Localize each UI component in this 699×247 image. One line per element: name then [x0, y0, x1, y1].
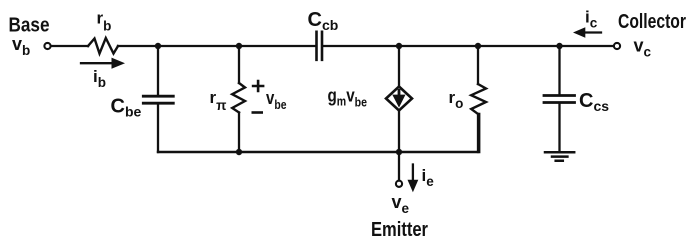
ground [545, 152, 574, 160]
wire base terminal to resistor r_b [52, 45, 89, 47]
svg-text:Ccb: Ccb [308, 9, 339, 33]
i_e arrowhead [408, 180, 419, 192]
svg-text:rπ: rπ [210, 88, 227, 113]
wire current source branch lower [398, 111, 400, 153]
svg-text:Emitter: Emitter [371, 219, 428, 241]
wire C_be branch lower [157, 104, 159, 153]
svg-text:Ccs: Ccs [579, 90, 609, 114]
capacitor C_cs plates [544, 96, 575, 103]
wire r_pi branch lower [238, 113, 240, 153]
svg-text:ro: ro [449, 88, 464, 111]
svg-text:ib: ib [93, 67, 106, 90]
wire emitter stub [398, 152, 400, 180]
wire r_o branch lower [477, 114, 479, 152]
wire bottom emitter rail [158, 114, 479, 152]
svg-text:vc: vc [634, 36, 652, 60]
wire C_cs branch lower [558, 103, 560, 152]
wire node B2 to capacitor C_cb [239, 45, 315, 47]
current source G1 inner arrow [398, 89, 401, 95]
node E2 junction dot (source bottom) [396, 149, 402, 155]
svg-text:vbe: vbe [266, 88, 287, 112]
resistor r_b [88, 38, 118, 54]
wire current source branch upper [398, 46, 400, 87]
svg-text:gmvbe: gmvbe [328, 86, 368, 110]
resistor r_o [471, 84, 486, 114]
polarity plus sign [252, 80, 265, 93]
svg-text:Collector: Collector [618, 11, 686, 33]
capacitor C_cb plates [317, 32, 323, 60]
node C2 junction dot [475, 43, 481, 49]
svg-text:ic: ic [585, 8, 598, 31]
svg-text:ve: ve [392, 192, 410, 216]
base terminal [44, 43, 50, 49]
wire C_be branch upper [157, 46, 159, 96]
emitter terminal [396, 181, 402, 187]
wire node C3 to collector terminal [560, 45, 613, 47]
i_c arrowhead [573, 27, 585, 38]
polarity minus sign [252, 111, 264, 114]
wire i_b arrow line [81, 62, 113, 64]
wire node C2 to node C3 [478, 45, 560, 47]
node C1 junction dot [396, 43, 402, 49]
wire node B1 to node B2 [158, 45, 239, 47]
svg-text:vb: vb [12, 34, 30, 58]
collector terminal [614, 43, 620, 49]
wire C_cb to node C1 [323, 45, 399, 47]
node E1 junction dot (r_pi bottom) [236, 149, 242, 155]
wire r_b to node B1 [118, 45, 158, 47]
svg-text:Cbe: Cbe [111, 96, 142, 120]
wire i_e arrow line [412, 165, 414, 182]
node B1 junction dot [155, 43, 161, 49]
wire r_o branch upper [477, 46, 479, 84]
node C3 junction dot [556, 43, 562, 49]
svg-text:rb: rb [97, 9, 112, 34]
wire C_cs branch upper [558, 46, 560, 95]
dependent current source G1 diamond [386, 87, 412, 111]
node B2 junction dot [236, 43, 242, 49]
i_b arrowhead [112, 58, 126, 69]
wire r_pi branch upper [238, 46, 240, 83]
wire node C1 to node C2 [399, 45, 478, 47]
resistor r_pi [232, 83, 245, 113]
wire i_c arrow line [584, 31, 601, 33]
capacitor C_be plates [143, 96, 173, 103]
svg-text:ie: ie [422, 166, 435, 189]
